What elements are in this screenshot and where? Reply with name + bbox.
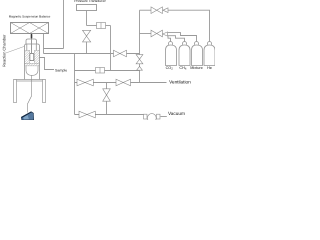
line B ventilation (75, 82, 167, 84)
line D vacuum (75, 114, 144, 116)
leader sample (40, 58, 55, 70)
arrow T2 (163, 32, 168, 36)
gas cylinder He (204, 42, 215, 66)
riser to top (63, 0, 65, 49)
sample bucket (30, 53, 34, 60)
gas cylinder CH4 (179, 42, 190, 66)
svg-text:Pressure Transducer: Pressure Transducer (74, 0, 106, 3)
valve V7 on line D (79, 111, 95, 118)
hatched chamber walls (25, 50, 40, 66)
line T2 (140, 33, 152, 35)
gas cylinder Mixture (192, 42, 203, 66)
svg-text:Sample: Sample (55, 68, 67, 72)
pipe from balance down (43, 34, 45, 54)
valve V8 on riser (136, 55, 143, 64)
arrow T1 (163, 8, 168, 13)
link coupling to drop (106, 25, 111, 27)
svg-text:CO2: CO2 (166, 66, 174, 71)
T1 supply line (168, 10, 210, 41)
valve V4 on line A (114, 50, 127, 57)
svg-text:Reaction Chamber: Reaction Chamber (2, 34, 7, 67)
cable to computer (28, 76, 32, 113)
arrow up on riser (137, 66, 143, 70)
coupling F1 (97, 23, 106, 29)
valve T1 (151, 7, 162, 14)
right riser (139, 10, 141, 82)
computer (21, 112, 33, 120)
svg-text:Magnetic Suspension Balance: Magnetic Suspension Balance (9, 14, 51, 18)
valve V5 on line B (116, 79, 131, 86)
svg-text:Vacuum: Vacuum (168, 111, 185, 116)
link to coupling 1 (87, 25, 97, 27)
svg-text:He: He (207, 66, 212, 70)
drop line (110, 26, 112, 71)
inner bottom dome (26, 66, 38, 76)
leader reaction chamber (5, 46, 25, 53)
transducer stem (86, 11, 88, 26)
vessel cap (26, 39, 37, 44)
valve V2 on line B (77, 79, 93, 86)
suspension rod (31, 34, 33, 54)
line C (75, 70, 140, 72)
manifold run to cylinder 1 (168, 36, 171, 41)
vacuum pump (144, 114, 161, 123)
line T1 (140, 9, 152, 11)
main line A (44, 53, 140, 55)
svg-text:Ventilation: Ventilation (169, 79, 191, 84)
valve V6 vertical between B and D (106, 83, 108, 89)
manifold run to cylinder 2 (168, 36, 185, 42)
manifold run to cylinder 3 (168, 33, 197, 42)
table (14, 80, 46, 103)
valve V1 vertical (83, 30, 91, 42)
pipe to riser (44, 48, 64, 50)
gas cylinder CO2 (166, 42, 177, 66)
valve V1 stem (86, 42, 88, 54)
pressure transducer box P (77, 5, 97, 11)
pump outlet (161, 116, 167, 118)
svg-text:Mixture: Mixture (190, 66, 202, 70)
balance box U1 (11, 23, 49, 34)
reaction chamber vessel (25, 44, 40, 80)
svg-text:CH4: CH4 (179, 66, 186, 71)
bus vertical (74, 54, 76, 115)
coupling F2 (96, 68, 105, 74)
valve T2 (151, 30, 162, 37)
